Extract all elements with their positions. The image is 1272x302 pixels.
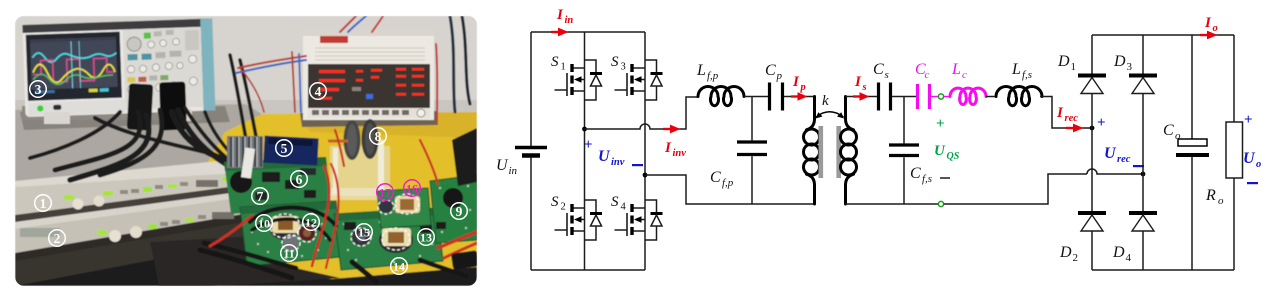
wire Cc to node (magenta) [931,96,938,98]
svg-text:+: + [936,116,945,132]
wire rectifier right leg [1142,35,1144,270]
label D3 [1113,53,1133,73]
label S4 [611,194,627,213]
svg-text:16: 16 [406,182,418,196]
label 15 [356,224,373,241]
photo: PSU knobs and leds panel2 [20,208,247,242]
svg-text:inv: inv [673,148,687,159]
capacitor Cfp shunt [737,97,767,205]
label 16 (magenta) [404,180,421,197]
label S1 [551,54,566,73]
photo: transformer on PCB 13 [379,227,413,253]
transistor Q S4 [615,200,663,240]
svg-text:D: D [1059,244,1072,261]
node S3-S4 midpoint [643,173,648,178]
node QS top (green circle) [938,94,943,99]
photo: scope waveforms [32,50,116,62]
label D2 [1059,244,1078,264]
photo: analyzer display band [308,64,430,108]
label + Urec - (blue) [1097,115,1144,167]
svg-text:in: in [509,165,518,177]
wire left rail lower [530,158,532,271]
svg-text:C: C [1163,122,1174,139]
photo: scope chin [28,99,125,115]
svg-text:L: L [696,62,706,79]
svg-text:I: I [1056,105,1064,121]
photo: dashed annotation circles [270,194,419,251]
label 8 [370,128,387,145]
svg-text:QS: QS [947,151,960,162]
node S1-S2 midpoint [582,127,587,132]
svg-text:S: S [551,54,559,70]
wire bottom rail inverter [531,269,645,271]
photo: scope screen [26,32,122,101]
photo: wall background [15,16,477,166]
svg-text:17: 17 [379,186,391,200]
svg-text:s: s [862,82,867,93]
transistor Q S2 [555,200,603,240]
wire primary bottom rail [698,203,815,205]
label Cc [915,61,930,81]
photo: heatsink [227,136,263,168]
label D1 [1057,53,1076,73]
label + Uinv - (blue) [584,137,643,168]
label Cp [765,62,783,82]
label Lfs [1011,61,1032,81]
label S2 [551,194,566,213]
svg-text:S: S [611,194,619,210]
svg-text:p: p [776,70,783,82]
wire hop over left rectifier leg [1087,169,1143,174]
inductor Lfp [698,87,744,106]
label Uin [496,157,518,177]
wire leg S1-S2 [584,32,586,270]
photo: small PCB with 16,17 [377,188,431,228]
photo: black cable loops on mat [200,207,466,282]
capacitor Cs [879,83,891,111]
photo: analyzer red sticker [320,36,348,43]
svg-text:+: + [1097,115,1106,131]
node QS bottom (green circle) [938,201,943,206]
photo: coils [344,120,361,160]
arrow Iin [551,28,569,37]
svg-text:4: 4 [315,84,322,99]
photo: toroid 12 [299,225,315,241]
svg-text:6: 6 [296,172,303,187]
svg-text:rec: rec [1065,113,1079,124]
photo: oscilloscope shadow [22,106,202,120]
photo: black clamp right edge [452,128,477,186]
node rectifier left input [1090,126,1095,131]
label Cs [873,61,889,81]
svg-text:I: I [792,74,800,90]
photo: PCB with 10,11,12 [240,201,340,266]
label Irec [1056,105,1078,124]
arrow Irec [1066,124,1084,133]
wire Lfs to rectifier [1040,97,1092,129]
svg-text:+: + [584,137,593,153]
photo: PSU cabinet top surface [15,104,262,198]
label 2 [49,230,66,247]
arrow Iinv [663,125,681,134]
svg-text:o: o [1218,195,1224,207]
photo: yellow mat [200,112,477,279]
wire Cs to Cc [892,96,916,98]
svg-text:1: 1 [561,62,566,73]
transformer secondary winding [841,97,857,205]
svg-text:o: o [1213,23,1218,34]
photo: red test leads [210,130,477,268]
svg-text:+: + [1244,112,1253,128]
svg-text:4: 4 [621,202,627,213]
svg-text:C: C [873,61,884,78]
svg-text:4: 4 [1126,252,1132,264]
svg-text:13: 13 [420,231,432,245]
svg-text:rec: rec [1117,154,1131,165]
svg-text:7: 7 [257,189,264,204]
wire inverter output lower [645,175,698,204]
label S3 [611,54,626,73]
svg-text:I: I [854,74,862,90]
photo: cables from scope over cabinet [30,55,262,188]
svg-text:c: c [925,69,930,81]
svg-text:o: o [1175,130,1181,142]
photo: dark table in front of PSU [150,236,340,290]
transistor Q S1 [555,60,603,100]
svg-text:U: U [1243,150,1256,167]
photo: analyzer key row [308,108,430,118]
photo: PCB 9 [430,175,477,243]
svg-text:3: 3 [35,82,42,97]
label Io [1204,15,1218,34]
label Cfp [710,169,734,189]
label Lfp [696,62,719,82]
wire rectifier bottom rail [1092,269,1234,271]
svg-text:inv: inv [611,157,625,168]
svg-text:o: o [1256,159,1261,170]
resistor Ro [1226,35,1243,270]
photo: acrylic coil stand [330,146,390,196]
photo: analyzer shadow on mat [300,111,438,127]
svg-text:C: C [710,169,721,186]
photo: PSU front panel 1 [15,163,252,217]
photo: white cable tag [241,147,255,178]
photo: blue controller board (5) [263,136,318,166]
arrow Io [1200,31,1218,40]
wire top rail inverter [531,31,645,33]
svg-text:12: 12 [305,216,317,230]
label 14 [391,258,408,275]
diode D2 [1078,213,1106,231]
arrow Ip [791,92,808,100]
transistor Q S3 [615,60,663,100]
label 13 [418,229,435,246]
capacitor Cfs shunt [889,97,919,205]
label 9 [451,203,468,220]
svg-text:5: 5 [281,141,288,156]
photo: PSU front panel 2 [15,192,255,255]
photo: scope probes [127,83,153,130]
label Iinv [664,140,686,159]
wire left rail upper [530,32,532,146]
label 11 [281,245,298,262]
arrow Is [853,92,870,100]
label + UQS - (green) [934,116,960,162]
wire node to Lc (magenta) [944,96,950,98]
svg-text:f,s: f,s [922,173,932,185]
diode D1 [1078,76,1106,94]
node rectifier right input [1141,172,1146,177]
svg-text:2: 2 [54,231,61,246]
svg-text:15: 15 [358,226,370,240]
inductor Lc (magenta) [950,88,986,104]
label Ro [1205,187,1224,207]
label k with coupling arrow [816,93,845,119]
svg-text:D: D [1057,53,1070,70]
label 6 [291,171,308,188]
photo: PSU groove under panel 1 [15,184,253,226]
svg-text:C: C [910,165,921,182]
photo: PSU groove under panel 2 [15,212,256,263]
svg-text:S: S [551,194,559,210]
photo: driver green PCB (6,7) [224,157,331,214]
svg-text:14: 14 [393,260,405,274]
photo: shadow under scope [20,106,230,130]
label 12 [303,214,320,231]
svg-text:D: D [1113,53,1126,70]
svg-text:1: 1 [1071,61,1077,73]
wire secondary top [846,96,878,98]
photo: black table bottom [15,248,477,286]
label Ip [792,74,806,93]
transformer primary winding [804,97,820,205]
label + Uo - (blue) [1243,112,1261,184]
wire rectifier top rail [1092,34,1234,36]
photo: oscilloscope body [22,18,215,117]
wire leg S3-S4 upper [644,32,646,175]
svg-text:I: I [664,140,672,156]
wire secondary bottom rail right [944,174,1087,204]
svg-text:D: D [1112,244,1125,261]
wire Lfp to Cp [744,96,768,98]
label Cfs [910,165,932,185]
wire Cp to primary [784,96,815,98]
wire secondary bottom rail [846,203,939,205]
svg-text:S: S [611,54,619,70]
svg-text:f,p: f,p [707,70,719,82]
transformer core [819,126,842,178]
svg-text:2: 2 [1073,252,1079,264]
label 1 [35,195,52,212]
svg-text:U: U [1104,145,1117,162]
svg-text:U: U [934,143,946,159]
svg-text:p: p [800,82,806,93]
label 17 (magenta) [377,184,394,201]
svg-text:L: L [1011,61,1021,78]
svg-text:2: 2 [561,202,566,213]
photo: scope feet [44,112,70,124]
svg-text:c: c [962,69,967,81]
svg-text:C: C [765,62,776,79]
svg-text:I: I [556,7,564,23]
svg-text:R: R [1205,187,1216,204]
battery Uin [515,148,547,156]
capacitor Cc (magenta) [918,84,930,109]
svg-text:8: 8 [375,129,382,144]
label 4 [310,83,327,100]
svg-text:f,p: f,p [722,177,734,189]
photo: scope control panel [123,27,204,110]
label Co [1163,122,1181,142]
label 5 [276,140,293,157]
wire inverter output upper with hop [585,97,699,129]
svg-text:k: k [822,93,829,109]
label Is [854,74,867,93]
svg-text:in: in [565,15,574,26]
photo: toroid 15 [352,228,370,246]
inductor Lfs [996,87,1042,106]
svg-text:11: 11 [283,247,294,261]
label 7 [252,188,269,205]
photo: circled number labels [30,81,468,275]
wire Lc to Lfs [986,96,996,98]
svg-text:U: U [598,148,611,165]
label D4 [1112,244,1132,264]
photo: transformer on PCB 10 [269,214,301,240]
svg-text:3: 3 [1127,61,1133,73]
svg-text:10: 10 [258,217,270,231]
wire leg S3-S4 lower [644,175,646,270]
capacitor Co [1176,35,1209,270]
wire rectifier left leg [1091,35,1093,270]
label 3 [30,81,47,98]
svg-text:s: s [885,69,889,81]
label Iin [556,7,573,26]
svg-text:9: 9 [456,204,463,219]
diode D3 [1129,76,1157,94]
label Lc [951,61,967,81]
svg-text:f,s: f,s [1022,69,1032,81]
photo: PCB with 13,14,15 [334,208,443,270]
photo: PSU knobs and leds panel1 [64,174,244,210]
photo: analyzer top wires [236,16,470,122]
diode D4 [1129,213,1157,231]
svg-text:1: 1 [40,196,47,211]
photo: component 11 [284,235,298,250]
capacitor Cp [770,83,783,111]
photo frame edge [15,16,477,286]
photo: power analyzer body [303,30,434,120]
label 10 [256,215,273,232]
svg-text:U: U [496,157,509,174]
svg-text:3: 3 [621,62,626,73]
svg-text:I: I [1204,15,1212,31]
svg-text:L: L [951,61,961,78]
